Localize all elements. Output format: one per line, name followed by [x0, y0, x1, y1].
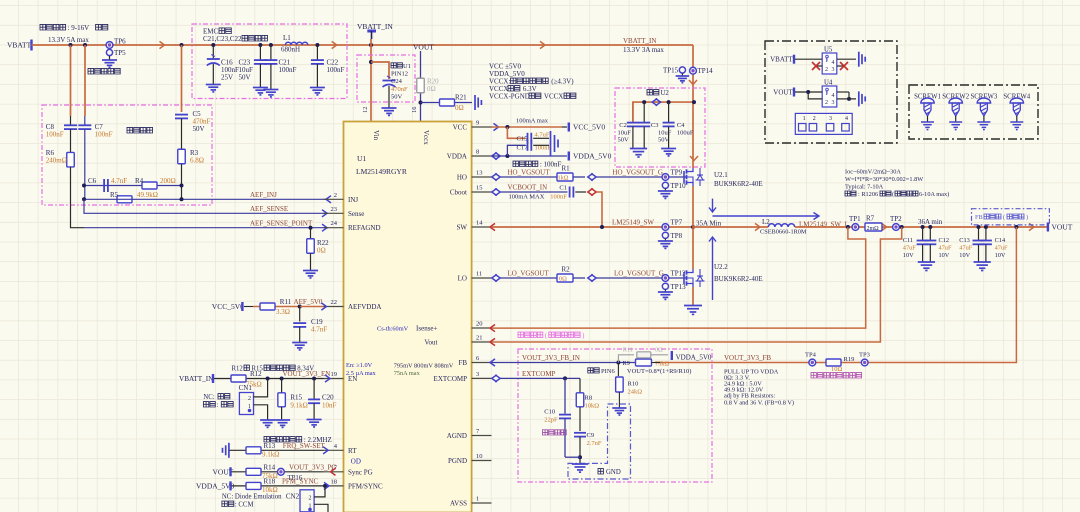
net VDDA_5V0 wire	[492, 152, 497, 159]
arrow pin21	[490, 338, 495, 345]
net VCBOOT_IN row	[492, 188, 497, 195]
svg-text:R2: R2	[562, 266, 571, 274]
ground C11 C12	[918, 261, 935, 263]
wire VOUT to Vccx pin	[420, 51, 422, 122]
kelvin sense wire A	[492, 227, 866, 328]
svg-text:C15: C15	[517, 136, 528, 143]
svg-text:50V: 50V	[658, 137, 670, 144]
svg-text:(≥4.3V): (≥4.3V)	[551, 78, 574, 86]
svg-text:2mΩ: 2mΩ	[867, 226, 880, 232]
svg-text:0.8 V and 36 V. (FB=0.8 V): 0.8 V and 36 V. (FB=0.8 V)	[724, 399, 794, 406]
ground C2 C3	[630, 148, 647, 150]
svg-text:L2: L2	[762, 218, 770, 226]
resistor R11 not fitted	[618, 355, 634, 363]
pin 19 EN	[324, 378, 344, 380]
resistor R3	[178, 149, 186, 164]
svg-text:10Ω: 10Ω	[831, 366, 843, 373]
note switching frequency	[264, 437, 302, 442]
junction dots on VBATT wire	[69, 43, 73, 47]
capacitor C16 polarized	[211, 43, 215, 47]
svg-text:(: (	[1003, 214, 1005, 221]
resistor R5 on AEF_INJ row	[117, 196, 132, 203]
testpoint TP5	[106, 49, 112, 55]
svg-text:10uF: 10uF	[658, 130, 672, 137]
svg-text:Cboot: Cboot	[450, 189, 467, 197]
capacitor C10	[559, 414, 571, 416]
svg-text:10V: 10V	[959, 252, 970, 259]
svg-text:SW: SW	[457, 224, 468, 232]
svg-text:R4: R4	[135, 177, 144, 185]
ground CN1	[260, 419, 275, 421]
svg-text:TP4: TP4	[805, 352, 817, 359]
svg-text:PIN12: PIN12	[391, 71, 408, 78]
resistor R8	[576, 393, 584, 407]
svg-text:U2.2: U2.2	[714, 263, 728, 271]
svg-text:R12: R12	[232, 366, 244, 373]
magenta box FB network	[518, 349, 712, 482]
svg-text:VCBOOT_IN: VCBOOT_IN	[508, 184, 548, 192]
svg-text:R13: R13	[264, 442, 276, 450]
svg-text:VCCX: VCCX	[544, 93, 563, 101]
svg-text:1: 1	[476, 496, 479, 503]
ground U4 rotated	[858, 91, 860, 106]
pin 11 LO	[472, 277, 492, 279]
note decoupling cap	[513, 161, 538, 166]
svg-text:L1: L1	[283, 34, 291, 42]
svg-text:AEF_SENSE_POINT: AEF_SENSE_POINT	[250, 220, 313, 228]
svg-text:9: 9	[476, 120, 479, 127]
capacitor C9	[574, 432, 586, 434]
port VDDA_5V0 at FB	[671, 351, 673, 360]
svg-text:VOUT_3V3_FB_IN: VOUT_3V3_FB_IN	[522, 354, 580, 362]
ground TP10	[664, 188, 666, 191]
pin 22 AEFVDDA	[324, 306, 344, 308]
svg-text:15: 15	[476, 185, 483, 192]
svg-text:FRQ_SW-SET: FRQ_SW-SET	[283, 442, 326, 450]
svg-text:0Ω: 0Ω	[559, 276, 567, 283]
testpoint TP8	[662, 232, 668, 238]
pin 21 Vout	[472, 341, 492, 343]
note common GND	[598, 469, 603, 474]
svg-text:PGND: PGND	[448, 457, 467, 465]
svg-text:24kΩ: 24kΩ	[628, 389, 643, 396]
resistor R22	[310, 228, 312, 239]
svg-text:AGND: AGND	[447, 432, 467, 440]
svg-text:AEF_SENSE: AEF_SENSE	[250, 205, 288, 213]
no-connect X marks U5	[812, 62, 820, 70]
resistor R14	[246, 468, 261, 475]
magenta box AEF filter	[42, 105, 212, 205]
capacitor C1	[569, 187, 571, 198]
svg-text:AVSS: AVSS	[450, 500, 467, 508]
svg-text:: 9-16V: : 9-16V	[68, 24, 90, 32]
svg-text:AEFVDDA: AEFVDDA	[348, 303, 381, 311]
svg-text:Sense: Sense	[348, 210, 364, 218]
svg-text:PIN6: PIN6	[601, 368, 615, 375]
svg-text:4: 4	[845, 116, 848, 122]
capacitor C20	[313, 379, 315, 400]
resistor R1	[557, 173, 573, 181]
magenta box near U1 PIN12	[357, 55, 415, 102]
svg-text:100nF: 100nF	[46, 131, 64, 139]
svg-text:16: 16	[411, 106, 418, 113]
svg-text:Sync PG: Sync PG	[348, 468, 373, 476]
arrow down on vertical 2	[690, 156, 698, 161]
svg-text:75nA max: 75nA max	[394, 370, 421, 377]
arrow pair after R1	[588, 173, 593, 180]
note near PIN5	[543, 430, 567, 435]
note near U1 PIN12 / C24 values	[391, 63, 402, 68]
svg-text:CN2: CN2	[286, 493, 300, 501]
wire EXTCOMP down legs	[564, 378, 566, 413]
transistor U2.1 BUK9K6R2-40E	[683, 171, 685, 183]
svg-text:50V: 50V	[391, 94, 403, 101]
kelvin sense wire B	[492, 227, 902, 342]
wire VBATT main horizontal	[32, 44, 694, 46]
svg-text:VDDA_5V0: VDDA_5V0	[573, 152, 612, 161]
svg-text:2: 2	[825, 100, 828, 106]
pin 2 INJ	[324, 198, 344, 200]
svg-text:2.5 µA max: 2.5 µA max	[346, 370, 377, 377]
pin 9 VCC	[472, 126, 492, 128]
svg-text:795mV 800mV 808mV: 795mV 800mV 808mV	[394, 362, 454, 369]
svg-text:VDDA_5V0: VDDA_5V0	[196, 481, 235, 490]
testpoint TP6	[106, 42, 113, 49]
svg-text:C20: C20	[322, 394, 334, 402]
arrow into pin 2	[326, 196, 331, 203]
ground C13 C14	[974, 261, 991, 263]
resistor R2	[557, 274, 573, 282]
current annotation right arrow	[713, 215, 819, 217]
net LO_VGSOUT_G wire	[597, 277, 687, 279]
svg-text:PFM/SYNC: PFM/SYNC	[348, 482, 383, 490]
svg-text:C2: C2	[619, 122, 627, 129]
svg-text:C24: C24	[391, 78, 403, 85]
svg-text:HO_VGSOUT_G: HO_VGSOUT_G	[612, 169, 663, 177]
wire R8 to C9	[579, 407, 581, 431]
capacitor C8	[64, 124, 77, 126]
svg-text:25V: 25V	[221, 74, 233, 82]
op-amp U1 LM25149RGYR body	[344, 122, 472, 512]
net AEF_SENSE_POINT wire	[84, 227, 328, 229]
capacitor C15	[527, 133, 529, 144]
svg-text:2: 2	[825, 67, 828, 73]
svg-text:0Ω: 0Ω	[455, 104, 464, 112]
svg-text:100mA max: 100mA max	[516, 118, 549, 125]
capacitor C17	[527, 140, 529, 151]
svg-text:LO: LO	[458, 275, 467, 283]
capacitor C4	[668, 102, 670, 122]
svg-text:100nF: 100nF	[95, 131, 113, 139]
svg-text:VOUT_3V3_EN: VOUT_3V3_EN	[283, 370, 331, 378]
svg-text:49.9kΩ: 49.9kΩ	[137, 191, 158, 199]
net FRQ_SW-SET row	[228, 443, 230, 458]
svg-text:C17: C17	[517, 145, 529, 152]
arrow pin20	[490, 325, 495, 332]
svg-text:3: 3	[829, 116, 832, 122]
pin 23 Sense	[324, 212, 344, 214]
net VCC_5V0 wire	[494, 123, 499, 130]
svg-text:FB: FB	[975, 214, 983, 221]
svg-text:12: 12	[362, 107, 369, 114]
svg-text:: CCM: : CCM	[235, 502, 254, 509]
testpoint TP4	[809, 359, 816, 366]
svg-text:TP15: TP15	[663, 67, 679, 75]
box FB sampling point	[972, 209, 1050, 225]
note phase stability test point	[811, 373, 862, 378]
svg-text:Typical: 7-10A: Typical: 7-10A	[845, 184, 884, 191]
junctions row1	[82, 184, 86, 188]
magenta box near U2	[615, 88, 705, 167]
inductor L1	[285, 42, 307, 45]
svg-text:R14: R14	[264, 464, 276, 472]
wire U2.1 source to SW	[692, 186, 694, 227]
wire L2 to output	[795, 226, 1047, 228]
note: input test point	[88, 68, 120, 74]
svg-text:SCREW1: SCREW1	[914, 93, 941, 100]
capacitor C24 polarized	[383, 80, 396, 82]
ground EXTCOMP common	[572, 463, 589, 465]
svg-text:2: 2	[248, 396, 251, 402]
magenta box EMC	[192, 24, 347, 99]
net VOUT_3V3_FB_IN wire	[490, 359, 495, 366]
pin 8 VDDA	[472, 155, 492, 157]
capacitor C5	[175, 114, 188, 116]
wires CN1	[254, 379, 268, 397]
svg-text:R15: R15	[290, 394, 302, 402]
net VOUT_3V3_EN row	[214, 378, 324, 380]
note: place together	[127, 127, 153, 133]
wire R21	[421, 102, 473, 104]
net HO_VGSOUT_G wire	[597, 176, 687, 178]
svg-text:11: 11	[476, 271, 482, 278]
resistor R10	[617, 363, 619, 377]
svg-text:INJ: INJ	[348, 196, 358, 204]
svg-text:24: 24	[331, 220, 338, 227]
pin 1 AVSS	[472, 502, 492, 504]
svg-text:6-10A max): 6-10A max)	[919, 191, 949, 198]
svg-text:4.7uF: 4.7uF	[535, 132, 550, 139]
capacitor C13 C14 pair	[977, 225, 981, 229]
ground C15 C17 rotated	[550, 131, 552, 156]
svg-text:2.7nF: 2.7nF	[587, 440, 602, 447]
svg-text:75kΩ: 75kΩ	[655, 361, 669, 368]
svg-text:NC:: NC:	[203, 394, 214, 401]
ground U5 rotated	[858, 52, 860, 67]
svg-text:13.3V 5A max: 13.3V 5A max	[48, 36, 89, 44]
net LO_VGSOUT	[492, 274, 497, 281]
svg-text:BUK9K6R2-40E: BUK9K6R2-40E	[714, 275, 763, 283]
svg-text:): )	[582, 333, 584, 340]
arrow pair after C1 red	[588, 188, 593, 195]
svg-text:TP2: TP2	[890, 215, 902, 223]
wire U2.1 drain	[692, 159, 694, 168]
svg-text:10V: 10V	[939, 252, 950, 259]
svg-text:240mΩ: 240mΩ	[46, 157, 67, 165]
svg-text:R18: R18	[264, 478, 276, 486]
svg-text:100nF: 100nF	[279, 66, 297, 74]
net LM25149_SW wire	[490, 223, 495, 230]
svg-text:R11: R11	[280, 298, 292, 306]
wire C7 down	[84, 129, 86, 199]
svg-text:VOUT_3V3_PG: VOUT_3V3_PG	[289, 464, 336, 472]
resistor R15	[281, 379, 283, 393]
svg-text:13.3V 3A max: 13.3V 3A max	[623, 46, 664, 54]
svg-text:0Ω: 0Ω	[655, 347, 663, 354]
ground R21 rotated	[474, 95, 476, 110]
svg-text:SCREW4: SCREW4	[1003, 93, 1030, 100]
svg-text:U1: U1	[357, 154, 366, 163]
ground R22	[310, 253, 312, 270]
pin 20 Isense+	[472, 327, 492, 329]
svg-text:100nF: 100nF	[550, 194, 567, 201]
svg-text:3: 3	[476, 371, 479, 378]
svg-text:9.1kΩ: 9.1kΩ	[262, 451, 279, 459]
svg-text:C1: C1	[559, 185, 567, 192]
svg-text:AEF_INJ: AEF_INJ	[250, 191, 277, 199]
row C6 R4	[84, 185, 182, 187]
svg-text:R9: R9	[623, 360, 630, 367]
svg-text:VBATT_IN: VBATT_IN	[623, 37, 656, 45]
ground TP15	[681, 73, 683, 76]
testpoint TP10	[662, 182, 668, 188]
svg-text:3: 3	[832, 67, 835, 73]
testpoint TP9	[662, 174, 669, 181]
ground TP13	[664, 289, 666, 292]
svg-text:Vout: Vout	[424, 339, 437, 347]
svg-text:1: 1	[825, 91, 828, 97]
svg-text:LO_VGSOUT_G: LO_VGSOUT_G	[614, 270, 664, 278]
ground R10	[618, 392, 620, 408]
resistor R18	[246, 482, 261, 489]
pin 17 Sync PG	[324, 471, 344, 473]
svg-text:4: 4	[832, 93, 835, 99]
svg-text:LO_VGSOUT: LO_VGSOUT	[508, 270, 550, 278]
svg-text:Isense+: Isense+	[416, 325, 437, 333]
svg-text:20: 20	[476, 321, 483, 328]
svg-text:W=I*I*R=30*30*0.002=1.8W: W=I*I*R=30*30*0.002=1.8W	[845, 176, 923, 183]
svg-text:19: 19	[331, 371, 338, 378]
svg-text:1: 1	[825, 58, 828, 64]
svg-text:14: 14	[476, 220, 483, 227]
wire Cboot to SW node	[597, 192, 603, 227]
junction C24	[369, 60, 373, 64]
svg-text:NC: Diode Emulation: NC: Diode Emulation	[222, 494, 282, 501]
svg-text:470nF: 470nF	[391, 86, 408, 93]
note near U2	[647, 90, 659, 95]
svg-text:TP10: TP10	[671, 182, 687, 190]
svg-text:: 100nF: : 100nF	[540, 161, 562, 169]
arrow pair after R2	[588, 274, 593, 281]
svg-text:47uF: 47uF	[939, 245, 952, 252]
svg-text:VDDA_5V0: VDDA_5V0	[676, 353, 712, 361]
svg-text:OD: OD	[351, 458, 361, 466]
ground C24	[382, 107, 397, 109]
svg-text:R7: R7	[866, 215, 875, 223]
wire arrows on VBATT wire	[160, 41, 165, 48]
svg-text:10V: 10V	[995, 252, 1006, 259]
net VOUT_3V3_PG row	[232, 471, 324, 473]
pin 3 EXTCOMP	[472, 377, 492, 379]
ground C19	[292, 342, 307, 344]
wire C5 branch	[181, 45, 183, 112]
svg-text:C10: C10	[544, 409, 555, 416]
svg-text:TP5: TP5	[114, 49, 126, 57]
svg-text:10nF: 10nF	[322, 402, 337, 410]
svg-text:CN1: CN1	[239, 384, 253, 392]
svg-text:C21,C23,C22: C21,C23,C22	[203, 35, 242, 43]
net AEF_SENSE wire	[84, 199, 328, 213]
port VCC_5V0	[568, 123, 570, 132]
wire VDDA to C17	[507, 145, 525, 156]
testpoint TP12	[662, 275, 669, 282]
svg-text:9.1kΩ: 9.1kΩ	[290, 402, 307, 410]
net EXTCOMP wire	[492, 375, 497, 382]
port VDDA_5V0	[568, 152, 570, 161]
svg-text:23: 23	[331, 206, 338, 213]
svg-text:R1: R1	[562, 165, 571, 173]
svg-text:C3: C3	[651, 122, 659, 129]
svg-text::: :	[216, 402, 218, 409]
svg-text:10uF: 10uF	[618, 130, 632, 137]
testpoint TP16	[278, 468, 285, 475]
svg-text:VBATT_IN: VBATT_IN	[179, 375, 214, 383]
black box connector group	[765, 41, 897, 143]
ground C4	[661, 148, 676, 150]
wire cap rail	[633, 102, 694, 122]
resistor R11a	[260, 303, 275, 310]
pin 4 RT	[324, 449, 344, 451]
svg-text:SCREW3: SCREW3	[970, 93, 997, 100]
svg-text:VDDA: VDDA	[447, 153, 467, 161]
svg-text:U2.1: U2.1	[714, 171, 728, 179]
current annotation arrow up into U2.2	[712, 237, 714, 300]
violet box R10 ground	[568, 404, 631, 479]
svg-text:TP13: TP13	[671, 283, 687, 291]
svg-text:50V: 50V	[193, 125, 205, 133]
svg-text:R19: R19	[844, 356, 855, 363]
wire C7 branch	[84, 45, 86, 116]
resistor R7 2mohm	[846, 225, 850, 229]
pin 14 SW	[472, 226, 492, 228]
svg-text:C14: C14	[995, 237, 1006, 244]
svg-text:HO: HO	[457, 174, 467, 182]
testpoint TP13	[662, 283, 668, 289]
svg-text:R10: R10	[628, 381, 639, 388]
resistor R12	[231, 375, 246, 382]
svg-text:10: 10	[476, 453, 483, 460]
wire C8 branch	[70, 45, 72, 116]
note: input voltage 9-16V	[40, 24, 66, 30]
current annotation arrow down 35A	[712, 199, 714, 211]
wire R6 down to AEF_SENSE_POINT row	[71, 167, 85, 228]
svg-text:SCREW2: SCREW2	[942, 93, 969, 100]
svg-text:Vccx: Vccx	[422, 130, 430, 145]
resistor R6	[67, 152, 75, 167]
capacitor C3	[643, 102, 645, 122]
ground TP8	[664, 238, 666, 241]
pin 10 PGND	[472, 460, 492, 462]
svg-text:50V: 50V	[618, 137, 630, 144]
pin 6 FB	[472, 362, 492, 364]
svg-text:(: (	[892, 191, 894, 198]
wires U5	[795, 58, 822, 60]
svg-text:Cs-th:60mV: Cs-th:60mV	[377, 326, 409, 333]
resistor R13	[246, 447, 261, 454]
svg-text:AEF_5V0: AEF_5V0	[294, 298, 323, 306]
arrow down on VBATT vertical	[689, 80, 697, 85]
svg-text:R5: R5	[110, 191, 119, 199]
